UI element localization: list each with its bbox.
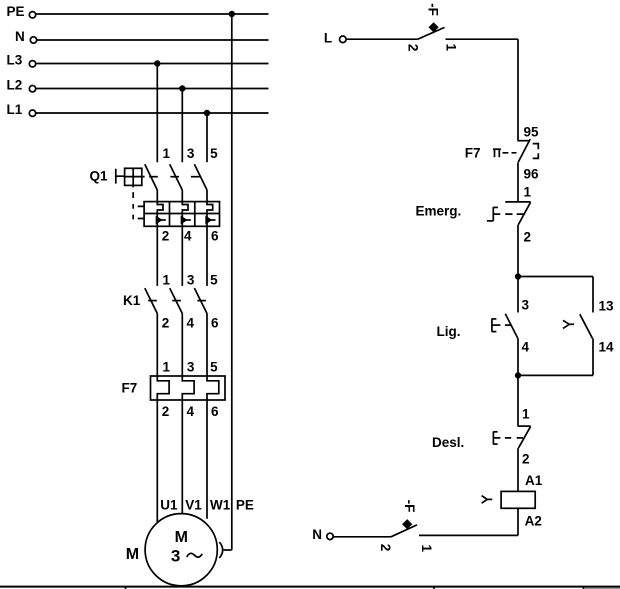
svg-text:3: 3 [171,547,180,566]
svg-text:-F: -F [425,3,440,16]
svg-text:A1: A1 [525,473,543,488]
svg-text:4: 4 [184,229,192,244]
svg-text:L3: L3 [7,53,23,68]
svg-text:2: 2 [162,404,170,419]
svg-text:2: 2 [405,44,420,52]
svg-text:L: L [324,30,332,45]
svg-text:14: 14 [599,340,615,355]
svg-text:A2: A2 [525,513,542,528]
svg-text:5: 5 [210,360,218,375]
svg-text:Q1: Q1 [90,169,109,184]
svg-text:Lig.: Lig. [437,324,461,339]
svg-text:1: 1 [444,44,459,52]
svg-text:5: 5 [210,146,218,161]
svg-text:2: 2 [522,452,530,467]
svg-text:95: 95 [524,125,540,140]
svg-text:L1: L1 [7,102,23,117]
svg-text:K1: K1 [123,293,141,308]
svg-text:Desl.: Desl. [432,435,464,450]
svg-text:L2: L2 [7,78,23,93]
svg-text:3: 3 [187,273,195,288]
svg-text:2: 2 [378,544,393,552]
svg-text:2: 2 [524,230,532,245]
svg-text:1: 1 [522,407,530,422]
svg-text:4: 4 [187,404,195,419]
svg-text:13: 13 [599,299,615,314]
svg-text:6: 6 [211,404,219,419]
svg-text:U1: U1 [160,498,178,513]
svg-text:F7: F7 [465,146,481,161]
svg-text:1: 1 [419,545,434,553]
svg-text:N: N [15,29,25,44]
svg-text:F7: F7 [122,381,138,396]
svg-text:2: 2 [162,316,170,331]
svg-text:-F: -F [402,500,417,513]
svg-text:1: 1 [163,273,171,288]
svg-text:6: 6 [211,229,219,244]
svg-text:5: 5 [210,273,218,288]
svg-text:M: M [126,546,139,563]
svg-text:Emerg.: Emerg. [416,204,462,219]
svg-text:W1: W1 [210,498,231,513]
svg-text:1: 1 [524,185,532,200]
svg-text:96: 96 [524,167,540,182]
svg-text:6: 6 [211,316,219,331]
svg-text:1: 1 [163,360,171,375]
svg-text:3: 3 [187,146,195,161]
svg-text:3: 3 [187,360,195,375]
svg-text:3: 3 [522,298,530,313]
svg-text:PE: PE [7,4,25,19]
svg-text:V1: V1 [185,498,202,513]
svg-text:M: M [175,529,188,546]
svg-text:2: 2 [162,229,170,244]
svg-text:PE: PE [236,498,254,513]
svg-text:4: 4 [187,316,195,331]
svg-text:1: 1 [163,146,171,161]
svg-text:4: 4 [522,340,530,355]
svg-text:N: N [312,527,322,542]
